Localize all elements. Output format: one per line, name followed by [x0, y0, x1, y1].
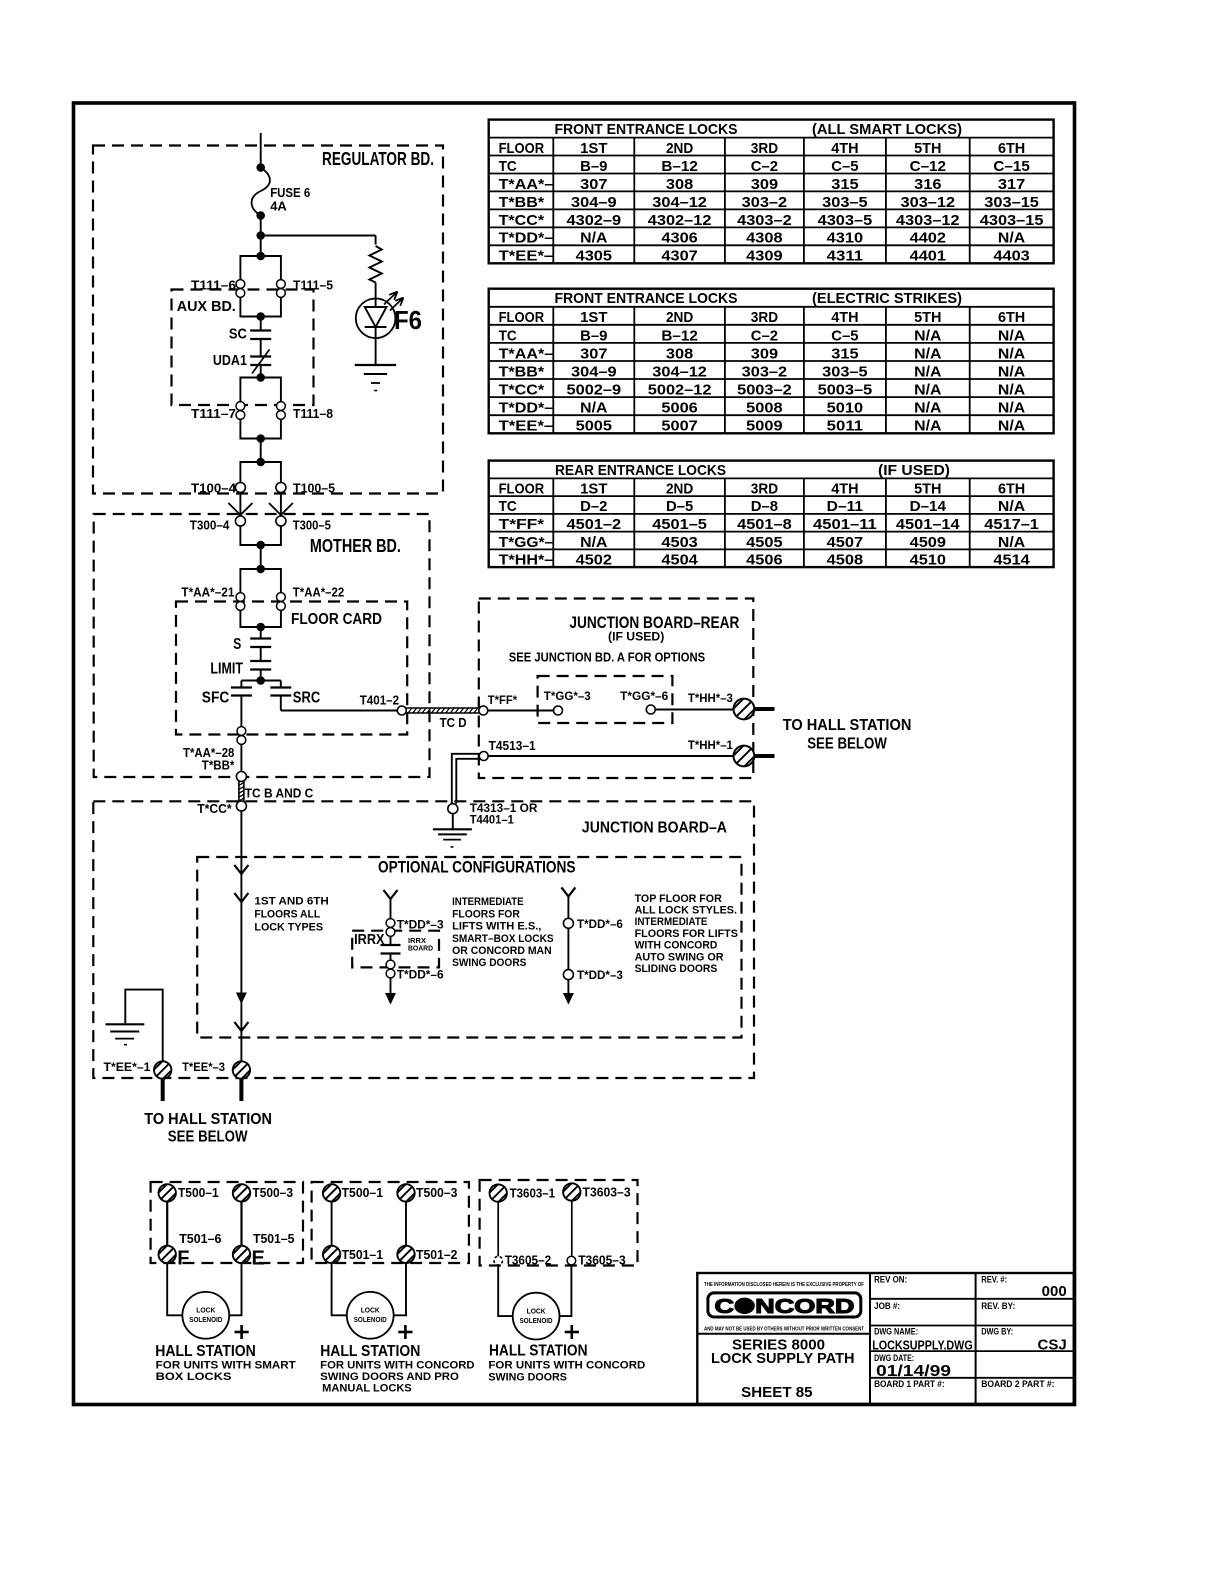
lock solenoid (station 2) — [347, 1292, 394, 1339]
svg-text:N/A: N/A — [998, 418, 1025, 435]
svg-text:C–15: C–15 — [993, 158, 1029, 175]
svg-text:N/A: N/A — [580, 230, 607, 247]
svg-text:T*AA*–22: T*AA*–22 — [293, 584, 344, 599]
svg-text:B–9: B–9 — [580, 327, 607, 344]
svg-text:T*GG*–3: T*GG*–3 — [544, 689, 591, 703]
node: bottom of T300 pair — [256, 541, 265, 550]
svg-text:HALL STATION: HALL STATION — [489, 1342, 588, 1359]
svg-text:D–8: D–8 — [751, 498, 778, 515]
svg-text:T3605–3: T3605–3 — [578, 1253, 626, 1268]
svg-text:E: E — [252, 1247, 265, 1269]
table: FRONT ENTRANCE LOCKS (ELECTRIC STRIKES) — [489, 289, 1054, 435]
polarity + (station 1) — [235, 1331, 249, 1334]
wire: T4513-1 pair down to T4313-1 — [452, 754, 480, 804]
svg-text:317: 317 — [998, 176, 1025, 193]
svg-text:FLOOR: FLOOR — [499, 309, 545, 326]
svg-text:T501–1: T501–1 — [342, 1247, 383, 1262]
wire: thick stub from T*HH*-1 — [754, 754, 774, 758]
svg-text:SOLENOID: SOLENOID — [354, 1315, 387, 1324]
wire: T500-3 to T501-5 — [240, 1202, 242, 1246]
LED indicator F6 — [356, 292, 404, 339]
contact S — [250, 637, 271, 639]
svg-text:4309: 4309 — [746, 248, 782, 265]
svg-text:N/A: N/A — [580, 400, 607, 417]
svg-text:LIMIT: LIMIT — [210, 661, 243, 678]
svg-text:T*HH*–: T*HH*– — [499, 552, 554, 569]
svg-text:5006: 5006 — [661, 400, 697, 417]
wire: SC to UDA1 — [260, 339, 262, 357]
wire: T*EE*-1 to ground — [125, 990, 162, 1062]
wire: station 1 to solenoid — [167, 1263, 241, 1315]
svg-text:D–2: D–2 — [580, 498, 607, 515]
svg-text:T*BB*: T*BB* — [499, 194, 545, 211]
wire: T*DD*-3 down with arrow — [567, 980, 569, 1003]
svg-text:T4513–1: T4513–1 — [489, 738, 536, 753]
svg-text:5005: 5005 — [576, 418, 612, 435]
svg-text:T*DD*–3: T*DD*–3 — [397, 918, 444, 932]
svg-text:HALL STATION: HALL STATION — [320, 1343, 420, 1360]
wire: T4313-1 to ground — [452, 814, 454, 829]
svg-text:T*CC*: T*CC* — [197, 801, 232, 816]
svg-text:T*DD*–: T*DD*– — [499, 400, 554, 417]
svg-text:01/14/99: 01/14/99 — [876, 1363, 951, 1380]
svg-text:4A: 4A — [270, 199, 287, 214]
svg-text:N/A: N/A — [914, 345, 941, 362]
svg-text:3RD: 3RD — [751, 309, 778, 326]
node: top of T111-6/T111-5 pair — [256, 252, 265, 261]
svg-text:5009: 5009 — [746, 418, 782, 435]
svg-text:FRONT ENTRANCE LOCKS: FRONT ENTRANCE LOCKS — [555, 290, 738, 307]
node: bottom of T111 pair — [256, 312, 265, 321]
svg-text:N/A: N/A — [998, 363, 1025, 380]
wire: UDA1 to T111-7 pair — [260, 365, 262, 378]
svg-text:T501–6: T501–6 — [179, 1231, 221, 1246]
node: bottom of T111-7/8 pair — [256, 434, 265, 443]
svg-text:T*EE*–1: T*EE*–1 — [104, 1060, 151, 1074]
svg-text:N/A: N/A — [998, 498, 1025, 515]
wire: supply entering regulator board — [260, 133, 262, 168]
wire: to SC contact — [260, 317, 262, 331]
wire: resistor to LED — [375, 283, 377, 299]
ground (junction board-A) — [433, 829, 472, 847]
wire: T500-1 to T501-6 — [166, 1202, 168, 1246]
svg-text:T*BB*: T*BB* — [499, 363, 545, 380]
svg-text:TC: TC — [499, 158, 517, 175]
hall station 2 box — [312, 1182, 469, 1263]
svg-text:4TH: 4TH — [831, 309, 858, 326]
svg-text:T500–1: T500–1 — [178, 1185, 219, 1200]
terminal T4513-1 — [479, 752, 488, 761]
ground (hall station return) — [106, 1024, 145, 1044]
svg-text:315: 315 — [831, 345, 858, 362]
svg-text:F: F — [177, 1247, 189, 1269]
svg-text:4509: 4509 — [910, 534, 946, 551]
svg-text:(ALL SMART LOCKS): (ALL SMART LOCKS) — [812, 121, 962, 138]
svg-text:T*AA*–: T*AA*– — [499, 176, 554, 193]
wire: between T*DD* terminals — [567, 928, 569, 969]
svg-text:303–15: 303–15 — [984, 194, 1039, 211]
terminal T500-3 (station 2) — [395, 1182, 417, 1204]
jumper option box in junction board-rear — [538, 676, 673, 723]
svg-text:3RD: 3RD — [751, 481, 778, 498]
wire: thick stubs below T*EE* terminals — [161, 1079, 165, 1101]
svg-text:4302–12: 4302–12 — [648, 212, 712, 229]
svg-text:LOCK SUPPLY PATH: LOCK SUPPLY PATH — [711, 1350, 855, 1367]
svg-text:304–9: 304–9 — [571, 194, 617, 211]
svg-text:FLOOR: FLOOR — [499, 140, 545, 157]
svg-text:4TH: 4TH — [831, 481, 858, 498]
svg-text:D–14: D–14 — [910, 498, 947, 515]
svg-text:LOCK: LOCK — [361, 1306, 381, 1315]
svg-text:TOP FLOOR FOR: TOP FLOOR FOR — [635, 893, 722, 905]
svg-text:T300–4: T300–4 — [190, 518, 230, 533]
svg-text:2ND: 2ND — [666, 481, 693, 498]
svg-text:4302–9: 4302–9 — [567, 212, 622, 229]
svg-text:4305: 4305 — [576, 248, 612, 265]
svg-text:JOB #:: JOB #: — [874, 1301, 900, 1311]
svg-text:HALL STATION: HALL STATION — [155, 1343, 256, 1360]
svg-text:T500–3: T500–3 — [416, 1185, 457, 1200]
svg-text:4310: 4310 — [827, 230, 863, 247]
svg-text:SMART–BOX LOCKS: SMART–BOX LOCKS — [452, 933, 553, 945]
terminal T501-2 — [395, 1243, 417, 1265]
svg-text:SC: SC — [229, 326, 247, 343]
board outline: MOTHER BD. — [94, 514, 430, 777]
svg-text:T*DD*–: T*DD*– — [499, 230, 554, 247]
svg-text:T100–4: T100–4 — [191, 481, 237, 496]
wire: to floor card — [260, 545, 262, 569]
chevron marks on branch 1 — [234, 865, 248, 874]
svg-text:N/A: N/A — [998, 327, 1025, 344]
svg-text:4303–2: 4303–2 — [737, 212, 792, 229]
terminal T111-6 — [236, 280, 245, 298]
terminal T*DD*-3 (IRRX top) — [386, 919, 395, 937]
arrowhead on branch 1 (lower) — [236, 993, 247, 1005]
terminal T*AA*-28 — [237, 727, 246, 745]
svg-text:THE INFORMATION DISCLOSED HERE: THE INFORMATION DISCLOSED HEREIN IS THE … — [704, 1282, 865, 1288]
svg-text:1ST: 1ST — [580, 309, 607, 326]
terminal T100-4 — [235, 483, 245, 493]
svg-text:SWING DOORS: SWING DOORS — [488, 1371, 567, 1383]
svg-text:JUNCTION BOARD–A: JUNCTION BOARD–A — [582, 820, 727, 837]
svg-text:304–12: 304–12 — [652, 363, 707, 380]
terminal T500-3 (station 1) — [230, 1182, 252, 1204]
svg-text:000: 000 — [1042, 1283, 1067, 1300]
svg-text:4502: 4502 — [576, 552, 612, 569]
svg-text:303–5: 303–5 — [822, 194, 868, 211]
svg-text:T111–8: T111–8 — [293, 406, 333, 421]
terminal T*DD*-6 (IRRX bottom) — [386, 960, 395, 978]
svg-text:SEE JUNCTION BD. A FOR OP: SEE JUNCTION BD. A FOR OPTIONS — [509, 649, 706, 664]
svg-text:REGULATOR BD.: REGULATOR BD. — [322, 149, 434, 169]
svg-text:4505: 4505 — [746, 534, 782, 551]
svg-text:T401–2: T401–2 — [360, 693, 399, 708]
wire: SFC to T*AA*-28 — [240, 696, 242, 727]
svg-text:LOCK: LOCK — [196, 1306, 216, 1315]
svg-text:LOCKSUPPLY.DWG: LOCKSUPPLY.DWG — [872, 1338, 973, 1353]
svg-text:T*CC*: T*CC* — [499, 212, 545, 229]
board outline: FLOOR CARD — [176, 602, 407, 735]
wire: branch to resistor/LED F6 — [261, 235, 376, 237]
svg-text:4307: 4307 — [661, 248, 697, 265]
wire: T100/T300 pair box — [240, 462, 281, 545]
svg-text:4501–11: 4501–11 — [813, 516, 877, 533]
node: top of T100 pair — [256, 458, 265, 467]
svg-text:5003–2: 5003–2 — [737, 382, 792, 399]
svg-text:FLOORS FOR LIFTS: FLOORS FOR LIFTS — [635, 928, 738, 940]
svg-text:303–2: 303–2 — [742, 363, 788, 380]
svg-text:5TH: 5TH — [914, 309, 941, 326]
svg-text:4506: 4506 — [746, 552, 782, 569]
box: OPTIONAL CONFIGURATIONS — [197, 857, 741, 1038]
svg-text:N/A: N/A — [998, 345, 1025, 362]
contact (IRRX board) — [381, 944, 401, 946]
node: top of T*AA* pair — [256, 565, 265, 574]
svg-text:N/A: N/A — [914, 327, 941, 344]
svg-text:2ND: 2ND — [666, 140, 693, 157]
svg-text:1ST: 1ST — [580, 481, 607, 498]
svg-text:LIFTS WITH E.S.,: LIFTS WITH E.S., — [452, 921, 541, 933]
svg-text:OPTIONAL CONFIGURATIONS: OPTIONAL CONFIGURATIONS — [378, 857, 576, 876]
svg-text:(ELECTRIC STRIKES): (ELECTRIC STRIKES) — [812, 290, 962, 307]
svg-text:T*AA*–: T*AA*– — [499, 345, 554, 362]
wire TC B AND C (hatched trunk) — [239, 782, 244, 802]
terminal T*AA*-22 — [277, 593, 286, 611]
svg-text:TC: TC — [499, 327, 517, 344]
svg-text:4514: 4514 — [993, 552, 1030, 569]
svg-text:5007: 5007 — [661, 418, 697, 435]
svg-text:DWG NAME:: DWG NAME: — [874, 1327, 918, 1337]
svg-text:N/A: N/A — [998, 400, 1025, 417]
contact SC — [250, 329, 271, 331]
wire: T500-3 to T501-2 — [405, 1202, 407, 1246]
svg-text:T501–2: T501–2 — [416, 1247, 457, 1262]
contact UDA1 (with slash) — [250, 355, 271, 357]
svg-text:4308: 4308 — [746, 230, 782, 247]
svg-text:FOR UNITS WITH CONCORD: FOR UNITS WITH CONCORD — [488, 1360, 645, 1372]
wire: T*FF* to T*GG*-3 — [488, 710, 554, 712]
wire: T4513-1 to T*HH*-1 — [488, 755, 733, 757]
svg-text:N/A: N/A — [998, 382, 1025, 399]
svg-text:TO HALL STATION: TO HALL STATION — [144, 1111, 272, 1128]
svg-text:4303–12: 4303–12 — [896, 212, 960, 229]
svg-text:T*DD*–6: T*DD*–6 — [577, 917, 623, 931]
svg-text:5002–12: 5002–12 — [648, 382, 712, 399]
svg-text:303–2: 303–2 — [742, 194, 788, 211]
hall station 1 box — [151, 1182, 303, 1263]
svg-text:4401: 4401 — [910, 248, 946, 265]
svg-text:T500–3: T500–3 — [252, 1185, 293, 1200]
svg-text:309: 309 — [751, 176, 778, 193]
svg-text:4311: 4311 — [827, 248, 863, 265]
svg-text:4306: 4306 — [661, 230, 697, 247]
svg-text:FRONT ENTRANCE LOCKS: FRONT ENTRANCE LOCKS — [555, 121, 738, 138]
terminal T*DD*-6 (branch 3) — [563, 918, 573, 928]
svg-text:3RD: 3RD — [751, 140, 778, 157]
svg-text:T3603–3: T3603–3 — [583, 1184, 631, 1199]
svg-text:4503: 4503 — [661, 534, 697, 551]
terminal T3603-3 — [561, 1181, 583, 1203]
svg-text:307: 307 — [580, 176, 607, 193]
resistor (F6 indicator series) — [369, 246, 381, 283]
svg-text:C–5: C–5 — [831, 327, 858, 344]
terminal T300-4 — [235, 516, 245, 526]
svg-text:N/A: N/A — [914, 400, 941, 417]
svg-text:SOLENOID: SOLENOID — [189, 1315, 222, 1324]
terminal T3605-2 (dashed) — [494, 1256, 503, 1265]
node: fuse top junction — [256, 163, 265, 172]
terminal T500-1 (station 1) — [156, 1182, 178, 1204]
svg-text:308: 308 — [666, 176, 693, 193]
table: FRONT ENTRANCE LOCKS (ALL SMART LOCKS) — [489, 120, 1054, 265]
board outline: JUNCTION BOARD-A — [93, 801, 754, 1078]
svg-text:5010: 5010 — [827, 400, 863, 417]
svg-text:T111–5: T111–5 — [293, 278, 333, 293]
wire: T3603-3 to T3605-3 — [571, 1201, 573, 1257]
svg-text:REV ON:: REV ON: — [874, 1275, 907, 1285]
svg-text:B–9: B–9 — [580, 158, 607, 175]
terminal T300-5 — [276, 516, 286, 526]
svg-text:1ST: 1ST — [580, 140, 607, 157]
terminal T*HH*-1 (to hall station) — [731, 743, 758, 770]
wire TC D (hatched trunk) — [406, 708, 479, 713]
svg-text:T111–6: T111–6 — [191, 278, 236, 293]
svg-text:AUX BD.: AUX BD. — [177, 298, 236, 315]
svg-text:N/A: N/A — [580, 534, 607, 551]
wire: station 2 to solenoid — [332, 1263, 406, 1315]
polarity + (station 3) — [565, 1331, 579, 1334]
lock solenoid (station 3) — [513, 1293, 560, 1340]
svg-text:C–2: C–2 — [751, 327, 778, 344]
contact SFC — [231, 686, 252, 688]
terminal T401-2 — [397, 706, 406, 715]
svg-text:T501–5: T501–5 — [253, 1231, 294, 1246]
svg-text:T*EE*–: T*EE*– — [499, 248, 554, 265]
svg-text:T*FF*: T*FF* — [499, 516, 545, 533]
svg-text:T*HH*–3: T*HH*–3 — [688, 691, 733, 705]
svg-text:FLOORS FOR: FLOORS FOR — [452, 908, 520, 920]
svg-text:N/A: N/A — [998, 534, 1025, 551]
svg-text:4517–1: 4517–1 — [984, 516, 1039, 533]
terminal T111-7 — [236, 402, 245, 420]
svg-text:UDA1: UDA1 — [213, 352, 247, 369]
svg-text:FOR UNITS WITH SMART: FOR UNITS WITH SMART — [156, 1360, 296, 1372]
svg-text:SOLENOID: SOLENOID — [520, 1316, 553, 1325]
wire: branch 3 (top floor) — [561, 887, 575, 896]
svg-text:MANUAL LOCKS: MANUAL LOCKS — [322, 1383, 412, 1395]
svg-text:5011: 5011 — [827, 418, 863, 435]
node: top of T111-7/T111-8 pair — [256, 373, 265, 382]
ground (below F6 LED) — [355, 365, 396, 391]
svg-text:INTERMEDIATE: INTERMEDIATE — [452, 896, 523, 908]
svg-text:MOTHER BD.: MOTHER BD. — [310, 536, 401, 556]
svg-text:5003–5: 5003–5 — [818, 382, 873, 399]
wire: T*GG*-6 to T*HH*-3 — [655, 709, 733, 711]
svg-text:4504: 4504 — [661, 552, 698, 569]
node: SFC/SRC branch — [256, 676, 265, 685]
terminal T*EE*-1 (to hall station) — [152, 1059, 174, 1081]
svg-text:N/A: N/A — [914, 382, 941, 399]
wire: IRRX branch — [384, 890, 398, 899]
svg-text:REV. BY:: REV. BY: — [981, 1301, 1015, 1311]
terminal T*GG*-6 — [646, 705, 655, 714]
wire: T*CC* down through optional configurations — [240, 811, 242, 1061]
svg-text:T*DD*–3: T*DD*–3 — [577, 968, 623, 982]
svg-text:D–5: D–5 — [666, 498, 693, 515]
wire: SRC to T401-2 — [280, 696, 282, 711]
wire: station 3 to solenoid — [498, 1265, 571, 1316]
svg-text:SWING DOORS AND PRO: SWING DOORS AND PRO — [320, 1371, 459, 1383]
wire: T*AA*-21/22 pair box — [240, 569, 281, 627]
hall station 3 box — [480, 1180, 638, 1266]
svg-text:315: 315 — [831, 176, 858, 193]
svg-text:C–12: C–12 — [910, 158, 946, 175]
svg-text:DWG BY:: DWG BY: — [981, 1327, 1013, 1337]
terminal T111-5 — [277, 280, 286, 298]
svg-text:6TH: 6TH — [998, 309, 1025, 326]
border frame — [74, 103, 1075, 1405]
wire: branch to SFC and SRC — [241, 680, 280, 682]
svg-text:303–5: 303–5 — [822, 363, 868, 380]
wire: T*DD*-6 down with arrow — [390, 978, 392, 1003]
svg-text:BOX LOCKS: BOX LOCKS — [156, 1371, 232, 1383]
svg-text:T*AA*–21: T*AA*–21 — [181, 584, 234, 599]
svg-text:5002–9: 5002–9 — [567, 382, 622, 399]
svg-text:B–12: B–12 — [661, 158, 697, 175]
wire: thick stub from T*HH*-3 — [754, 707, 774, 711]
svg-text:T*HH*–1: T*HH*–1 — [688, 738, 733, 752]
terminal T*DD*-3 (branch 3) — [563, 970, 573, 980]
svg-text:307: 307 — [580, 345, 607, 362]
svg-text:CSJ: CSJ — [1038, 1337, 1067, 1354]
svg-text:T4401–1: T4401–1 — [470, 812, 514, 826]
svg-text:4TH: 4TH — [831, 140, 858, 157]
svg-text:N/A: N/A — [998, 230, 1025, 247]
svg-text:5008: 5008 — [746, 400, 782, 417]
node: branch to indicator F6 — [256, 231, 265, 240]
svg-text:4501–5: 4501–5 — [652, 516, 707, 533]
svg-text:TO HALL STATION: TO HALL STATION — [783, 717, 912, 734]
svg-text:SLIDING DOORS: SLIDING DOORS — [635, 963, 718, 975]
polarity + (station 2) — [398, 1331, 412, 1334]
svg-text:REAR ENTRANCE LOCKS: REAR ENTRANCE LOCKS — [555, 462, 726, 479]
terminal T3605-3 — [567, 1256, 576, 1265]
svg-text:6TH: 6TH — [998, 140, 1025, 157]
terminal T*FF* — [479, 706, 488, 715]
svg-text:T*EE*–: T*EE*– — [499, 418, 554, 435]
wire: pair to contact — [390, 936, 392, 945]
svg-text:4501–2: 4501–2 — [567, 516, 622, 533]
svg-text:BOARD 1 PART #:: BOARD 1 PART #: — [874, 1379, 945, 1389]
terminal T500-1 (station 2) — [320, 1182, 342, 1204]
contact LIMIT — [250, 660, 271, 662]
terminal T3603-1 — [487, 1182, 509, 1204]
terminal T*AA*-21 — [236, 593, 245, 611]
svg-text:FLOOR: FLOOR — [499, 481, 545, 498]
terminal T501-1 — [320, 1243, 342, 1265]
wire: LED to ground — [375, 338, 377, 364]
svg-text:TC: TC — [499, 498, 517, 515]
contact SRC — [270, 686, 291, 688]
wire: to T100 contacts — [260, 439, 262, 463]
svg-text:FLOORS ALL: FLOORS ALL — [254, 909, 320, 921]
fuse FUSE 6 4A — [252, 168, 270, 216]
svg-text:OR CONCORD MAN: OR CONCORD MAN — [452, 945, 552, 957]
svg-text:C–5: C–5 — [831, 158, 858, 175]
table: REAR ENTRANCE LOCKS (IF USED) — [489, 461, 1054, 569]
terminal T*HH*-3 (to hall station) — [731, 696, 758, 723]
svg-text:4403: 4403 — [993, 248, 1029, 265]
